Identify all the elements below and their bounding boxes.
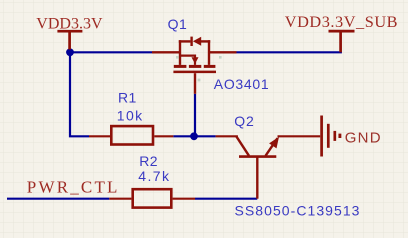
R1 right pin (154, 135, 173, 137)
pin number tick marks (176, 56, 222, 81)
svg-text:4.7k: 4.7k (138, 168, 170, 184)
svg-text:R2: R2 (139, 153, 158, 169)
resistor R1 (111, 126, 153, 144)
junction dot at VDD rail (66, 48, 74, 56)
power port VDD3.3V_SUB (329, 31, 355, 52)
svg-text:GND: GND (345, 130, 382, 147)
wire: Q1 gate down to mid junction (194, 94, 196, 137)
body diode top line (179, 40, 191, 42)
R2 left pin (109, 198, 131, 200)
svg-text:10k: 10k (117, 107, 144, 123)
transistor Q2 (SS8050 NPN) (216, 136, 278, 198)
svg-text:SS8050-C139513: SS8050-C139513 (235, 203, 361, 219)
gate pin (194, 73, 196, 94)
svg-text:R1: R1 (118, 89, 137, 105)
gate plate (173, 71, 216, 74)
svg-text:VDD3.3V: VDD3.3V (36, 16, 103, 33)
collector diagonal (236, 136, 249, 156)
source pin (152, 51, 181, 53)
drain pin (209, 51, 237, 53)
bulk arrow (192, 57, 199, 64)
R2 right pin (173, 198, 196, 200)
resistor R2 (133, 189, 172, 207)
wire: Q1 drain to VDD3.3V_SUB port (237, 51, 342, 53)
right stub (208, 40, 210, 65)
bulk connection (181, 56, 195, 65)
power port VDD3.3V (57, 31, 82, 49)
svg-text:Q2: Q2 (234, 113, 254, 129)
diode triangle (193, 37, 201, 46)
svg-text:PWR_CTL: PWR_CTL (27, 177, 120, 196)
left stub (179, 40, 181, 65)
svg-text:VDD3.3V_SUB: VDD3.3V_SUB (285, 12, 398, 31)
wire: PWR_CTL to R2 left pin (7, 198, 109, 200)
wire: mid junction to Q2 collector pin (194, 135, 216, 137)
svg-text:AO3401: AO3401 (214, 76, 270, 92)
R1 left pin (89, 135, 110, 137)
wire: VDD junction to Q1 source, and down to R1 (70, 52, 152, 136)
base pin (256, 157, 258, 199)
wire: R2 right pin to Q2 base (195, 198, 257, 200)
channel plates (174, 65, 187, 68)
svg-text:Q1: Q1 (168, 16, 188, 32)
base bar (239, 155, 276, 158)
collector pin (216, 135, 238, 137)
diode cathode bar (190, 37, 192, 46)
ground GND (278, 116, 340, 157)
junction dot at mid node (190, 132, 198, 140)
emitter arrow (269, 137, 279, 149)
emitter diagonal (266, 138, 278, 156)
wire: R1 right pin to mid junction (173, 135, 194, 137)
transistor Q1 (AO3401 P-MOSFET) (152, 37, 237, 94)
